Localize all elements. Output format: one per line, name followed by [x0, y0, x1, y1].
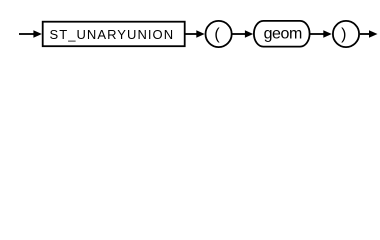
- wire: geom to ): [310, 33, 324, 35]
- svg-text:(: (: [214, 26, 220, 43]
- arrowhead into (: [196, 30, 204, 38]
- arrowhead into ): [323, 30, 332, 38]
- arrowhead into ST_UNARYUNION box: [33, 30, 42, 38]
- svg-text:): ): [341, 26, 346, 43]
- wire: ) to end: [360, 33, 370, 35]
- arrowhead end: [369, 30, 378, 38]
- svg-text:geom: geom: [264, 26, 302, 43]
- wire: box to (: [186, 33, 198, 35]
- svg-text:ST_UNARYUNION: ST_UNARYUNION: [50, 27, 175, 42]
- wire: ( to geom: [232, 33, 246, 35]
- arrowhead into geom: [245, 30, 253, 38]
- box ST_UNARYUNION: [43, 22, 185, 47]
- terminal circle ): [333, 21, 359, 47]
- rounded box geom: [254, 21, 310, 47]
- terminal circle (: [206, 21, 232, 47]
- wire: start rail: [19, 33, 35, 35]
